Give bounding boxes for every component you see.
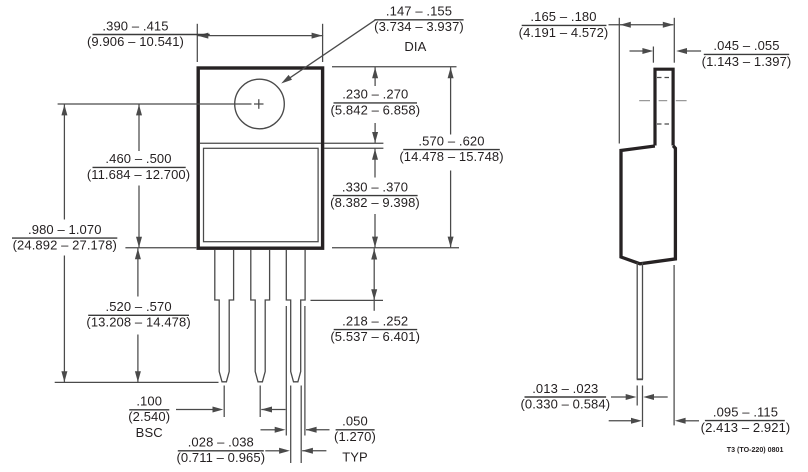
svg-text:(24.892 – 27.178): (24.892 – 27.178) <box>13 238 117 253</box>
svg-text:(1.270): (1.270) <box>334 429 376 444</box>
svg-text:.570 – .620: .570 – .620 <box>418 133 484 148</box>
svg-text:.050: .050 <box>342 414 368 429</box>
svg-text:(0.711 – 0.965): (0.711 – 0.965) <box>176 450 265 465</box>
svg-text:BSC: BSC <box>136 425 163 440</box>
svg-text:.218 – .252: .218 – .252 <box>342 313 408 328</box>
svg-text:.028 – .038: .028 – .038 <box>188 435 254 450</box>
svg-text:TYP: TYP <box>342 450 368 465</box>
svg-text:(8.382 – 9.398): (8.382 – 9.398) <box>330 195 420 210</box>
svg-text:(2.540): (2.540) <box>128 409 170 424</box>
svg-text:.045 – .055: .045 – .055 <box>713 38 779 53</box>
svg-text:(3.734 – 3.937): (3.734 – 3.937) <box>374 19 464 34</box>
svg-text:(5.842 – 6.858): (5.842 – 6.858) <box>330 102 420 117</box>
svg-text:.390 – .415: .390 – .415 <box>102 18 168 33</box>
svg-text:.165 – .180: .165 – .180 <box>530 9 596 24</box>
svg-text:(2.413 – 2.921): (2.413 – 2.921) <box>701 420 791 435</box>
svg-text:.520 – .570: .520 – .570 <box>106 299 172 314</box>
svg-text:DIA: DIA <box>404 39 426 54</box>
svg-text:(14.478 – 15.748): (14.478 – 15.748) <box>399 149 503 164</box>
svg-text:(13.208 – 14.478): (13.208 – 14.478) <box>86 315 190 330</box>
svg-text:.330 – .370: .330 – .370 <box>342 179 408 194</box>
svg-text:.013 – .023: .013 – .023 <box>532 381 598 396</box>
svg-text:(1.143 – 1.397): (1.143 – 1.397) <box>702 54 792 69</box>
svg-text:T3 (TO-220) 0801: T3 (TO-220) 0801 <box>727 446 784 454</box>
svg-text:.147 – .155: .147 – .155 <box>386 4 452 19</box>
svg-text:(11.684 – 12.700): (11.684 – 12.700) <box>87 167 190 182</box>
svg-text:.095 – .115: .095 – .115 <box>713 404 778 419</box>
svg-text:(9.906 – 10.541): (9.906 – 10.541) <box>87 34 184 49</box>
svg-text:(5.537 – 6.401): (5.537 – 6.401) <box>330 329 420 344</box>
svg-text:(4.191 – 4.572): (4.191 – 4.572) <box>519 25 609 40</box>
svg-text:.980 – 1.070: .980 – 1.070 <box>28 222 102 237</box>
svg-text:(0.330 – 0.584): (0.330 – 0.584) <box>520 396 610 411</box>
svg-text:.230 – .270: .230 – .270 <box>342 87 408 102</box>
svg-text:.100: .100 <box>136 394 162 409</box>
svg-text:.460 – .500: .460 – .500 <box>105 151 171 166</box>
